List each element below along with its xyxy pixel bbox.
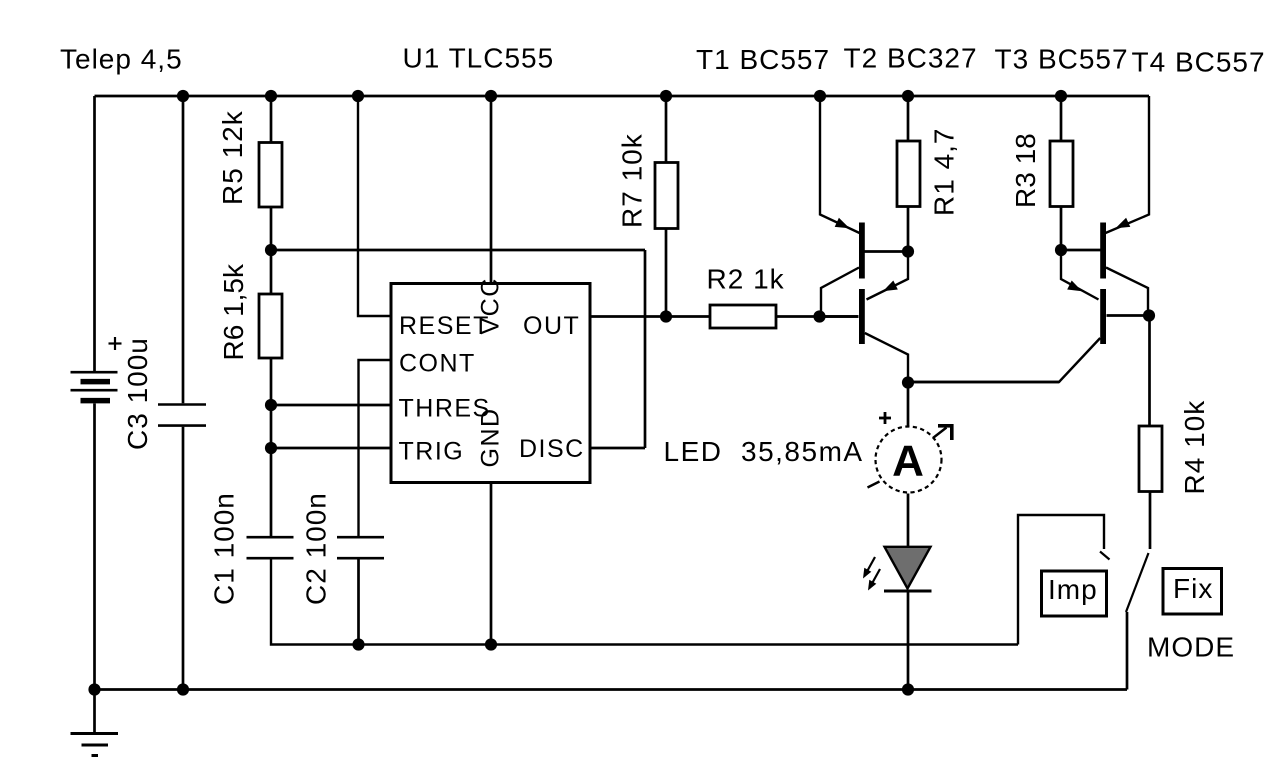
resistor R6 1,5k body [259,294,282,358]
junction top rail at VCC [485,90,497,102]
resistor R4 top lead [1148,316,1151,427]
junction R2-T1 collector [813,310,825,322]
svg-text:C2 100n: C2 100n [301,492,332,605]
resistor R7 top lead [665,96,668,163]
transistor T3 collector wire [1106,268,1148,316]
junction THRES tap [265,399,277,411]
resistor R5 12k body [259,143,282,208]
wire CONT pin to C2 [359,360,393,536]
wire top supply rail [95,95,1150,98]
junction bottom rail at LED [902,683,914,695]
junction T3 collector-T4 base-R4 [1143,309,1155,321]
svg-text:DISC: DISC [519,435,585,463]
wire TRIG pin [271,447,392,450]
ammeter plus sign [879,417,891,420]
wire R2 to T2 base [776,315,859,318]
ammeter needle arrow line [931,428,947,440]
junction signal-ground at GND pin [485,638,497,650]
transistor T1 emitter arrow [835,218,850,229]
junction R3-T3 base-T4 emitter [1055,244,1067,256]
svg-text:A: A [892,437,925,486]
switch common wire [1126,612,1129,690]
transistor T4 emitter wire [1061,250,1099,300]
ammeter bottom lead [907,494,910,547]
transistor T3 base bar [1100,223,1106,279]
svg-text:TRIG: TRIG [399,438,465,466]
junction signal-ground at C2 [352,638,364,650]
resistor R3 18 body [1050,141,1073,207]
plus sign battery polarity [109,342,122,344]
LED cathode bar [884,590,932,593]
wire DISC link horizontal [271,249,645,252]
resistor R2 1k body [710,305,776,328]
resistor R3 bottom lead [1060,207,1063,251]
junction top rail at R1 [902,90,914,102]
transistor T2 emitter arrow [883,281,898,292]
LED diode triangle [885,547,931,589]
ammeter needle tail [868,482,880,488]
junction top rail at R3 [1055,90,1067,102]
wire collector link [908,381,1059,384]
transistor T1 collector wire [821,268,859,317]
svg-text:T4 BC557: T4 BC557 [1132,47,1266,78]
junction OUT-R7 [660,310,672,322]
LED emission arrow 1 [865,557,876,576]
resistor R1 4,7 body [897,141,920,207]
junction node R5-R6-DISC [265,244,277,256]
wire T3 base [1061,249,1101,252]
LED emission arrow 2 [870,569,881,588]
transistor T2 base bar [859,289,865,344]
resistor R4 bottom lead [1149,492,1152,550]
svg-text:C3 100u: C3 100u [122,337,153,450]
svg-text:Imp: Imp [1048,574,1098,605]
junction R1-T1 base-T2 emitter [902,245,914,257]
wire VCC pin [490,96,493,283]
svg-text:R5 12k: R5 12k [217,110,248,205]
battery Telep 4,5 top lead [93,96,96,371]
capacitor C2 bottom lead [357,559,360,644]
capacitor C1 bottom lead [271,559,1018,644]
op-amp U1 TLC555 body [391,284,590,483]
transistor T3 emitter arrow [1116,218,1131,229]
junction bottom rail at battery [88,683,100,695]
junction top rail at RESET link [352,90,364,102]
wire T4 base [1107,314,1150,317]
svg-text:VCC: VCC [477,277,505,334]
ammeter needle arrowhead [938,424,954,428]
wire DISC pin [590,447,645,450]
switch Imp contact wire [1018,515,1104,645]
junction top rail at C3 [177,90,189,102]
transistor T3 emitter wire [1106,96,1150,233]
capacitor C2 100n plates [337,536,384,539]
svg-text:R3 18: R3 18 [1010,133,1041,208]
wire DISC link vertical [644,250,647,448]
svg-text:T1 BC557: T1 BC557 [696,44,830,75]
wire R6 to C1 [270,358,273,536]
svg-text:GND: GND [477,407,505,467]
ammeter body circle [876,427,942,493]
svg-text:R4 10k: R4 10k [1179,400,1210,495]
battery Telep 4,5 plates [71,371,118,374]
transistor Q T1 emitter wire [820,96,860,233]
transistor T4 base bar [1100,289,1106,344]
svg-text:Telep 4,5: Telep 4,5 [60,44,183,75]
wire OUT to R2 [590,315,710,318]
junction top rail at R7 [660,90,672,102]
svg-text:MODE: MODE [1147,632,1235,663]
capacitor C3 top lead [182,96,185,403]
transistor T1 base bar [859,223,865,279]
battery bottom lead / ground stub [93,404,96,734]
transistor T4 emitter arrow [1067,281,1082,292]
svg-text:OUT: OUT [523,312,580,340]
svg-text:R1 4,7: R1 4,7 [929,128,960,217]
svg-text:U1 TLC555: U1 TLC555 [403,43,555,74]
svg-text:Fix: Fix [1173,573,1213,604]
wire RESET link [358,96,392,316]
svg-text:R2 1k: R2 1k [707,264,785,295]
wire THRES pin [271,404,392,407]
resistor R1 top lead [907,96,910,141]
resistor R4 10k body [1139,426,1162,492]
junction bottom rail at C3 [177,683,189,695]
junction T2-T4 collectors [902,376,914,388]
resistor R3 top lead [1060,96,1063,141]
transistor T2 collector wire [865,333,908,383]
wire T1 base to R1 bottom [865,250,909,253]
transistor T2 emitter wire [867,252,909,300]
svg-text:35,85mA: 35,85mA [741,436,864,467]
resistor R7 bottom lead [665,229,668,317]
wire T2 base [820,315,859,318]
resistor R7 10k body [655,163,678,229]
svg-text:T3 BC557: T3 BC557 [995,44,1129,75]
wire bottom rail [93,688,1127,691]
resistor R1 bottom lead [907,207,910,252]
svg-text:CONT: CONT [399,350,476,378]
wire R5 to R6 [270,207,273,294]
svg-text:R6 1,5k: R6 1,5k [218,263,249,360]
svg-text:R7 10k: R7 10k [617,133,648,228]
capacitor C3 bottom lead [182,427,185,690]
ground symbol [71,732,119,735]
junction top rail at R5 [265,90,277,102]
Imp box [1042,571,1107,616]
wire GND pin [490,483,493,645]
Fix box [1163,569,1222,615]
LED bottom lead [907,591,910,690]
ammeter top lead [907,383,910,428]
resistor R5 top lead [270,96,273,143]
capacitor C1 100n plates [247,536,294,539]
switch Imp contact tick [1100,552,1110,560]
svg-text:T2 BC327: T2 BC327 [844,43,978,74]
svg-text:LED: LED [664,436,723,467]
junction TRIG tap [265,442,277,454]
svg-text:C1 100n: C1 100n [209,492,240,605]
switch MODE blade [1126,553,1149,612]
capacitor C3 plates [158,403,206,406]
junction top rail at T1 emitter [814,90,826,102]
transistor T4 collector wire [908,338,1100,382]
